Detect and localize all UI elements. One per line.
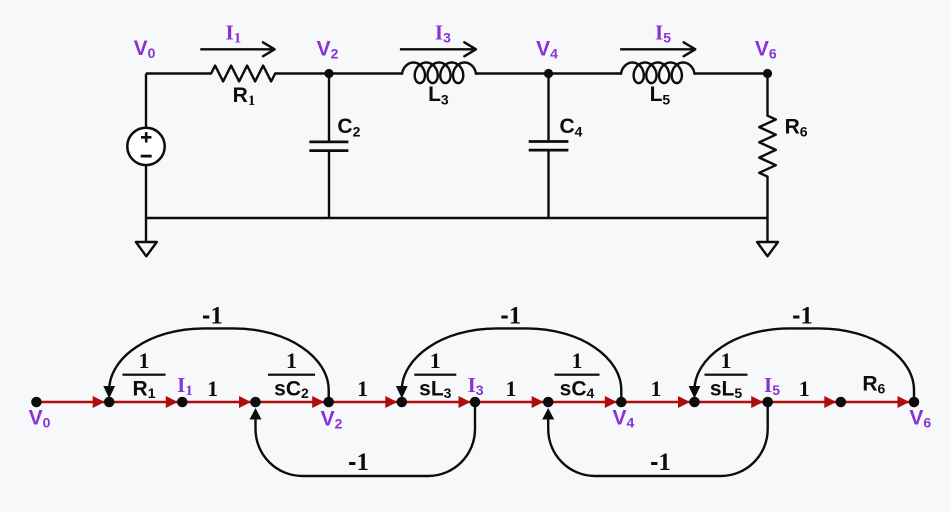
svg-text:1: 1 [207, 376, 218, 401]
node V4 dot [544, 69, 553, 78]
inductor L5 [621, 63, 695, 84]
node n8 [543, 397, 554, 408]
ground right [757, 242, 778, 256]
node n6 [397, 397, 408, 408]
branch arrowhead into I3 [459, 396, 471, 408]
feedback arc -1 from V2 to n2 [109, 328, 329, 396]
ground right stub [766, 218, 768, 242]
capacitor C2 branch wire lower [328, 152, 330, 218]
resistor R6 wire lower [766, 177, 768, 218]
node V6 dot [763, 69, 772, 78]
svg-text:1: 1 [572, 348, 583, 373]
node I3 [470, 397, 481, 408]
branch arrowhead into n8 [532, 396, 544, 408]
svg-text:1: 1 [286, 348, 297, 373]
branch arrowhead into n4 [239, 396, 251, 408]
capacitor C4 branch wire upper [547, 74, 549, 141]
svg-text:1: 1 [506, 376, 517, 401]
wire: L5 to V6 [695, 72, 768, 74]
feedback arc -1 from I3 to n4 [256, 407, 476, 476]
svg-text:-1: -1 [792, 301, 813, 329]
resistor R1 [211, 66, 275, 82]
capacitor C4 branch wire lower [547, 151, 549, 218]
resistor R6 [759, 116, 776, 177]
branch arrowhead into n6 [385, 396, 397, 408]
node n2 [104, 397, 115, 408]
svg-text:-1: -1 [500, 301, 521, 329]
svg-text:-1: -1 [650, 448, 671, 476]
node n12 [836, 397, 847, 408]
feedback arc -1 from I5 to n8 [548, 407, 768, 476]
wire bottom rail [146, 217, 768, 219]
node I1 [177, 397, 188, 408]
svg-text:1: 1 [357, 376, 368, 401]
current arrow I3 [400, 48, 474, 50]
flow graph main line V0 to V6 [36, 401, 914, 404]
ground left [136, 242, 157, 256]
branch arrowhead into n2 [93, 396, 105, 408]
wire: R1 to L3 [275, 72, 402, 74]
capacitor C2 plates [309, 141, 348, 144]
inductor L3 [402, 63, 476, 84]
wire: left branch lower [145, 165, 147, 218]
branch arrowhead into I1 [166, 396, 178, 408]
resistor R6 wire upper [766, 74, 768, 116]
node V0 [31, 397, 42, 408]
wire: L3 to L5 [476, 72, 621, 74]
current arrow I5 [620, 48, 693, 50]
node V2 [323, 397, 334, 408]
svg-text:1: 1 [430, 348, 441, 373]
node n10 [689, 397, 700, 408]
branch arrowhead into V4 [605, 396, 617, 408]
feedback arc -1 from V6 to n10 [695, 328, 915, 396]
branch arrowhead into I5 [751, 396, 763, 408]
branch arrowhead into n12 [824, 396, 836, 408]
branch arrowhead into V6 [898, 396, 910, 408]
node I5 [762, 397, 773, 408]
svg-text:1: 1 [721, 348, 732, 373]
wire top: V0 to R1 [146, 72, 211, 74]
capacitor C4 plates [529, 140, 569, 143]
wire: left branch upper [145, 74, 147, 128]
svg-text:1: 1 [799, 376, 810, 401]
svg-text:-1: -1 [348, 448, 369, 476]
svg-text:1: 1 [139, 348, 150, 373]
ground left stub [145, 218, 147, 242]
node V4 [616, 397, 627, 408]
current arrow I1 [200, 48, 272, 50]
capacitor C2 branch wire upper [328, 74, 330, 141]
node n4 [250, 397, 261, 408]
svg-text:-1: -1 [202, 301, 223, 329]
node V6 [909, 397, 920, 408]
svg-text:1: 1 [651, 376, 662, 401]
voltage source VS [127, 128, 164, 165]
branch arrowhead into V2 [312, 396, 324, 408]
feedback arc -1 from V4 to n6 [402, 328, 622, 396]
branch arrowhead into n10 [678, 396, 690, 408]
node V2 dot [324, 69, 333, 78]
